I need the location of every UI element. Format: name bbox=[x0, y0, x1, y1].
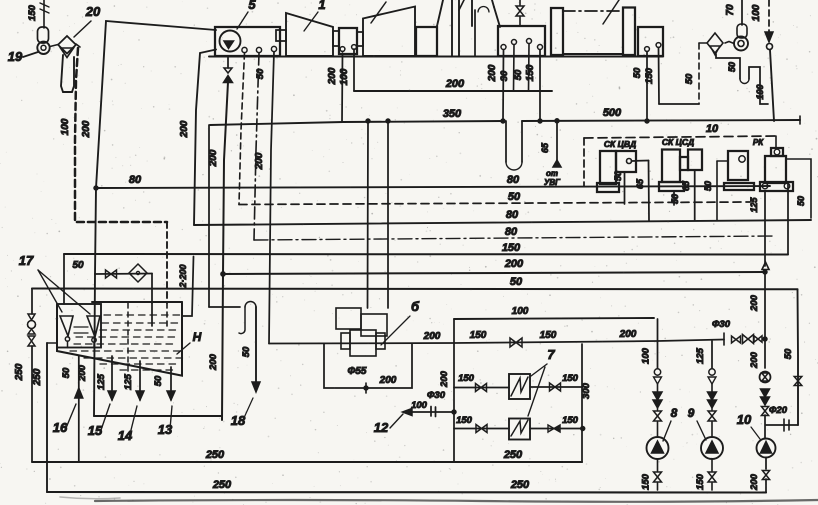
svg-text:10: 10 bbox=[706, 123, 719, 135]
svg-text:250: 250 bbox=[503, 449, 523, 461]
svg-text:250: 250 bbox=[510, 479, 530, 491]
svg-text:250: 250 bbox=[205, 449, 225, 461]
svg-text:150: 150 bbox=[458, 373, 475, 384]
svg-text:100: 100 bbox=[339, 68, 350, 85]
svg-text:125: 125 bbox=[96, 373, 107, 390]
svg-text:20: 20 bbox=[85, 4, 101, 19]
svg-text:РК: РК bbox=[753, 138, 764, 147]
svg-text:2·200: 2·200 bbox=[178, 264, 188, 288]
svg-text:125: 125 bbox=[695, 347, 706, 364]
svg-text:17: 17 bbox=[19, 253, 34, 268]
svg-text:200: 200 bbox=[619, 329, 637, 340]
svg-text:150: 150 bbox=[562, 373, 579, 384]
svg-text:50: 50 bbox=[703, 181, 713, 191]
svg-text:150: 150 bbox=[470, 330, 487, 341]
svg-text:50: 50 bbox=[796, 196, 806, 206]
svg-text:100: 100 bbox=[411, 400, 428, 411]
svg-text:65: 65 bbox=[635, 178, 645, 189]
svg-text:200: 200 bbox=[749, 351, 760, 369]
svg-text:100: 100 bbox=[751, 4, 762, 21]
svg-text:5: 5 bbox=[248, 0, 256, 12]
svg-text:б: б bbox=[411, 299, 420, 314]
svg-text:50: 50 bbox=[613, 171, 623, 181]
svg-text:200: 200 bbox=[77, 364, 88, 382]
svg-text:Н: Н bbox=[193, 330, 202, 344]
svg-text:Ф20: Ф20 bbox=[769, 405, 788, 416]
svg-text:7: 7 bbox=[547, 347, 555, 362]
svg-text:250: 250 bbox=[212, 479, 232, 491]
svg-text:50: 50 bbox=[241, 346, 252, 357]
svg-text:350: 350 bbox=[443, 108, 462, 120]
svg-text:200: 200 bbox=[445, 78, 465, 90]
svg-text:50: 50 bbox=[153, 375, 164, 386]
svg-text:50: 50 bbox=[72, 260, 84, 271]
svg-text:250: 250 bbox=[32, 368, 43, 386]
svg-text:200: 200 bbox=[208, 353, 219, 371]
svg-text:80: 80 bbox=[129, 174, 142, 186]
svg-text:200: 200 bbox=[749, 294, 760, 312]
svg-text:200: 200 bbox=[254, 152, 265, 170]
svg-text:Ф55: Ф55 bbox=[348, 366, 367, 377]
svg-text:100: 100 bbox=[512, 306, 529, 317]
svg-text:80: 80 bbox=[507, 174, 520, 186]
svg-text:50: 50 bbox=[670, 194, 680, 204]
svg-text:100: 100 bbox=[641, 347, 652, 364]
svg-text:19: 19 bbox=[8, 49, 23, 64]
svg-text:125: 125 bbox=[749, 197, 759, 213]
svg-text:СК ЦСД: СК ЦСД bbox=[662, 137, 694, 147]
svg-text:200: 200 bbox=[439, 370, 450, 388]
svg-text:150: 150 bbox=[502, 242, 521, 254]
svg-text:150: 150 bbox=[562, 415, 579, 426]
svg-text:10: 10 bbox=[737, 412, 752, 427]
svg-text:150: 150 bbox=[540, 330, 557, 341]
svg-text:65: 65 bbox=[540, 142, 550, 153]
svg-text:50: 50 bbox=[61, 367, 72, 378]
svg-text:200: 200 bbox=[423, 331, 441, 342]
svg-text:150: 150 bbox=[456, 415, 473, 426]
svg-text:80: 80 bbox=[506, 209, 519, 221]
svg-text:200: 200 bbox=[379, 375, 397, 386]
svg-text:от: от bbox=[546, 169, 558, 178]
svg-text:125: 125 bbox=[123, 373, 134, 390]
svg-text:30: 30 bbox=[499, 70, 510, 81]
svg-text:50: 50 bbox=[727, 62, 737, 72]
svg-text:80: 80 bbox=[505, 226, 518, 238]
svg-text:1: 1 bbox=[318, 0, 325, 12]
svg-text:9: 9 bbox=[688, 406, 695, 420]
svg-text:500: 500 bbox=[603, 107, 622, 119]
svg-text:СК ЦВД: СК ЦВД bbox=[604, 139, 636, 149]
svg-text:50: 50 bbox=[513, 69, 524, 80]
svg-text:200: 200 bbox=[81, 120, 92, 138]
svg-text:150: 150 bbox=[27, 4, 38, 21]
svg-text:18: 18 bbox=[231, 413, 246, 428]
svg-text:50: 50 bbox=[684, 73, 695, 84]
svg-text:50: 50 bbox=[255, 68, 266, 79]
svg-text:150: 150 bbox=[644, 67, 655, 84]
svg-text:100: 100 bbox=[60, 118, 71, 135]
svg-text:200: 200 bbox=[327, 67, 338, 85]
svg-text:УВГ: УВГ bbox=[544, 178, 561, 187]
svg-text:8: 8 bbox=[671, 406, 678, 420]
svg-text:50: 50 bbox=[508, 191, 521, 203]
svg-text:200: 200 bbox=[749, 473, 760, 491]
svg-text:12: 12 bbox=[374, 420, 389, 435]
svg-text:300: 300 bbox=[581, 382, 592, 399]
svg-text:200: 200 bbox=[487, 64, 498, 82]
svg-text:150: 150 bbox=[695, 473, 706, 490]
svg-text:200: 200 bbox=[504, 258, 524, 270]
svg-text:Ф30: Ф30 bbox=[712, 319, 731, 330]
svg-text:150: 150 bbox=[641, 473, 652, 490]
svg-text:50: 50 bbox=[510, 276, 523, 288]
svg-text:Ф30: Ф30 bbox=[427, 390, 446, 401]
svg-text:250: 250 bbox=[14, 363, 25, 381]
svg-text:200: 200 bbox=[179, 120, 190, 138]
svg-text:100: 100 bbox=[755, 84, 765, 99]
svg-text:50: 50 bbox=[632, 67, 643, 78]
svg-text:50: 50 bbox=[783, 348, 794, 359]
